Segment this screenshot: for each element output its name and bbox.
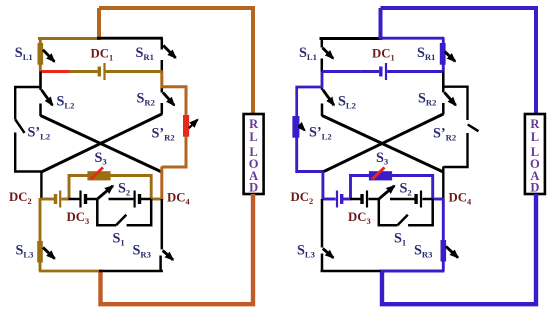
arrow of S_R3 xyxy=(446,246,458,257)
wire right node down to DC4 row xyxy=(160,167,163,201)
wire DC2 row xyxy=(41,198,54,201)
arrow of S'_R2 xyxy=(189,120,198,129)
wire DC1 row mid xyxy=(69,70,98,73)
switch S_L1 (open) xyxy=(321,38,324,47)
wire DC3 to S2 xyxy=(87,198,98,201)
wire top rail left half (right circuit) xyxy=(320,37,382,40)
battery DC2 xyxy=(54,194,57,204)
svg-text:R: R xyxy=(249,117,259,131)
wire DC3 to S2 xyxy=(368,198,379,201)
wire branch to S'_L2 (top) xyxy=(15,72,40,120)
switch S3 (closed bar) xyxy=(369,171,392,180)
wire diagonal from S_L2 to right node xyxy=(41,116,162,173)
wire branch from S'_R2 (bottom) xyxy=(443,133,467,167)
arrow of S_L3 xyxy=(323,249,334,258)
switch S_L1 (closed bar) xyxy=(39,39,42,72)
battery DC3 xyxy=(360,194,363,204)
wire DC2 node down to S_L3 xyxy=(39,198,42,271)
wire DC1 row right xyxy=(106,70,163,73)
wire S2 to DC4 xyxy=(109,198,134,201)
arrow of S_R3 xyxy=(163,251,173,260)
wire bottom rail left half xyxy=(39,270,101,273)
arrow of S_R2 xyxy=(444,92,455,105)
wire left node down to DC2 row xyxy=(321,172,324,200)
switch S_R2 (open) xyxy=(442,72,445,93)
arrow of S_L1 xyxy=(43,50,55,62)
switch S_R1 (open) xyxy=(161,38,164,49)
wire DC4 node down to S_R3 xyxy=(442,199,445,271)
wire DC2 to S3 riser xyxy=(61,198,69,201)
arrow of S_R2 xyxy=(163,92,174,105)
battery DC3 xyxy=(79,191,81,208)
switch S_R3 (open) xyxy=(161,199,164,250)
RL LOAD box (left circuit) xyxy=(244,114,264,194)
wire S3 row with risers xyxy=(351,176,433,201)
wire branch from S'_R2 (bottom) xyxy=(162,137,186,168)
wire S1 loop right side xyxy=(127,199,152,225)
arrow of S_L2 xyxy=(41,90,52,105)
arrow of S_L3 xyxy=(43,247,55,258)
switch S_R3 (closed bar) xyxy=(441,240,447,262)
svg-text:L: L xyxy=(531,130,539,144)
wire diagonal from S_L2 to right node xyxy=(322,116,443,173)
wire S1 loop left side xyxy=(379,199,398,225)
wire bottom rail right half xyxy=(381,270,445,273)
wire diagonal from S_R2 to left node xyxy=(41,114,162,172)
switch S'_L2 (open blade) xyxy=(15,120,24,133)
wire DC2 row xyxy=(323,198,336,201)
switch S_R1 (closed bar) xyxy=(442,39,445,72)
wire branch to S'_R2 (top step) xyxy=(443,72,467,121)
wire top rail left half (left circuit) xyxy=(38,37,100,40)
wire DC4 to junction xyxy=(141,198,152,201)
switch S2 (open arrow blade) xyxy=(379,186,394,199)
wire top line to load (right circuit) xyxy=(381,8,537,114)
wire S1 loop left side xyxy=(97,199,116,225)
wire S2 to DC4 xyxy=(390,198,415,201)
wire top riser to source bus (right circuit) xyxy=(379,8,383,40)
arrow of S_R1 xyxy=(445,52,455,62)
wire DC1 row mid-right xyxy=(361,70,380,73)
wire load bottom return line (left circuit) xyxy=(101,194,254,304)
switch S3 (closed bar) xyxy=(87,171,110,180)
switch S'_R2 (closed bar) xyxy=(183,115,189,137)
wire top rail right half (right circuit) xyxy=(379,37,445,40)
switch S1 (open blade) xyxy=(116,215,126,225)
switch S_L2 (open) xyxy=(39,72,41,91)
arrow of S_L1 xyxy=(323,48,334,59)
wire left node down to DC2 row xyxy=(40,172,42,200)
battery DC2 xyxy=(336,191,338,208)
RL LOAD box (right circuit) xyxy=(525,114,545,194)
battery DC4 xyxy=(134,191,136,208)
wire DC4 to junction xyxy=(422,198,433,201)
wire right node down to DC4 row xyxy=(442,167,444,201)
wire top rail right half (left circuit) xyxy=(97,37,163,40)
svg-text:L: L xyxy=(249,130,257,144)
wire DC2 to S3 riser xyxy=(343,198,351,201)
wire DC1 row left (red highlighted) xyxy=(41,70,71,73)
wire branch from S'_L2 (bottom) xyxy=(15,133,41,172)
wire S1 loop right side xyxy=(408,199,433,225)
svg-text:D: D xyxy=(530,181,539,195)
wire bottom rail left half xyxy=(321,270,383,272)
switch S_L3 (closed bar) xyxy=(37,241,43,263)
wire S3 row with risers xyxy=(69,176,151,201)
switch S1 (open blade) xyxy=(398,215,408,225)
wire load bottom return line (right circuit) xyxy=(382,194,536,304)
wire DC1 row left xyxy=(322,70,361,73)
wire branch to S'_R2 (top step) xyxy=(162,72,186,117)
switch S2 (open arrow blade) xyxy=(98,186,113,199)
wire junction to right node xyxy=(433,198,445,201)
svg-text:D: D xyxy=(249,181,258,195)
red blade of S3 xyxy=(372,167,384,179)
battery DC4 xyxy=(414,194,417,204)
wire branch from S'_L2 (bottom) xyxy=(297,116,323,172)
wire branch to S'_L2 (top) xyxy=(297,72,322,120)
switch S'_L2 (closed bar) xyxy=(292,116,299,138)
switch S'_R2 (open blade) xyxy=(468,125,479,132)
wire S3 riser to DC3 xyxy=(350,198,361,201)
arrow of S_R1 xyxy=(163,45,175,57)
svg-text:R: R xyxy=(530,117,540,131)
arrow of S_L2 xyxy=(323,90,334,105)
wire junction to right node xyxy=(151,198,163,201)
switch S_L2 (open) xyxy=(321,72,323,91)
switch S_R2 (open) xyxy=(161,72,164,93)
wire bottom rail right half xyxy=(99,270,163,272)
wire S3 riser to DC3 xyxy=(69,198,80,201)
wire top riser to source bus (left circuit) xyxy=(97,8,101,40)
arrow of S'_L2 xyxy=(299,125,304,131)
red blade of S3 xyxy=(91,167,103,179)
wire diagonal from S_R2 to left node xyxy=(323,114,444,172)
wire top line to load (left circuit) xyxy=(99,8,253,114)
switch S_L3 (open) xyxy=(321,199,324,248)
